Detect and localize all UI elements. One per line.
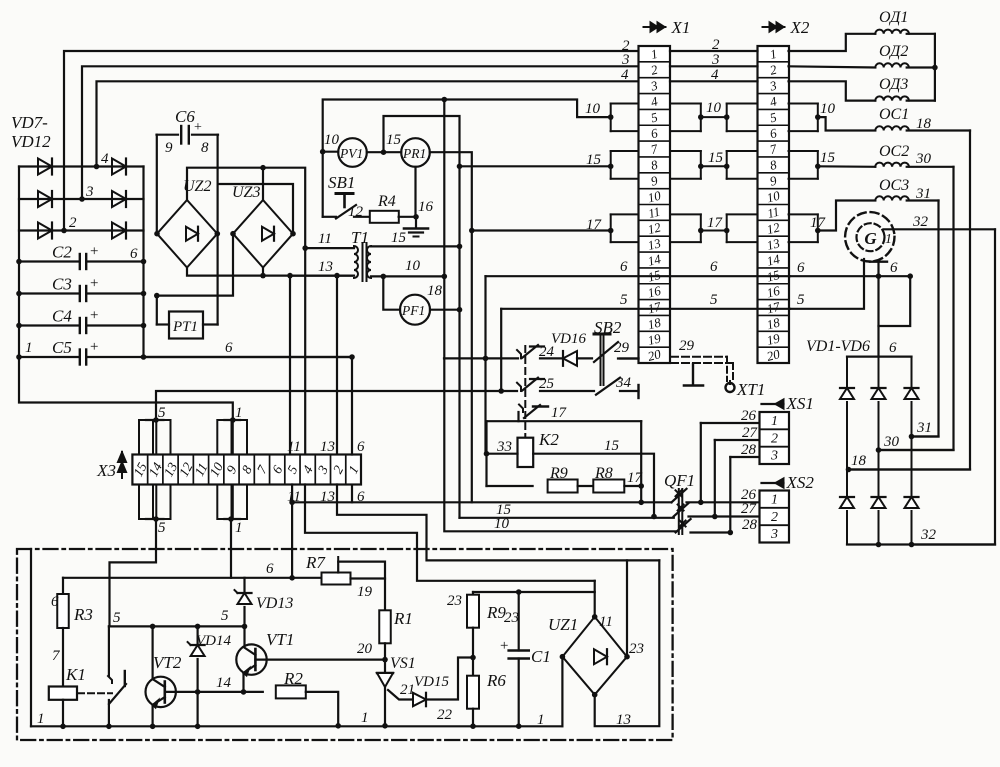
wire K2 coil left — [487, 453, 518, 455]
svg-text:K1: K1 — [65, 665, 86, 684]
svg-text:ОС1: ОС1 — [879, 106, 909, 123]
X3 aux rect below-4 — [233, 485, 247, 520]
svg-text:18: 18 — [916, 116, 932, 132]
svg-text:17: 17 — [707, 215, 724, 231]
node net-5 right end — [242, 624, 248, 630]
capacitor C3 — [19, 292, 78, 294]
svg-text:UZ1: UZ1 — [548, 615, 578, 634]
capacitor C5 — [19, 356, 78, 358]
wire OD common — [934, 34, 936, 101]
wire X3 rect1 bottom — [228, 516, 234, 522]
node UZ3 left vertex — [230, 231, 236, 237]
wire X1-X2 row2 net-3 — [670, 65, 758, 67]
svg-text:30: 30 — [915, 151, 932, 167]
svg-text:2: 2 — [771, 510, 778, 525]
X3 aux rect below-3 — [217, 485, 231, 520]
svg-text:+: + — [90, 339, 98, 355]
node VD14 base cross — [195, 689, 201, 695]
svg-text:6: 6 — [710, 259, 718, 275]
relay contact K2.2 (25) — [517, 383, 521, 391]
svg-text:+: + — [90, 244, 98, 260]
wire riser 28 to XS1 — [729, 457, 731, 533]
inductor OC1 — [875, 126, 909, 130]
node VT2 emitter bottom — [150, 724, 156, 730]
wire QF1 out 28 — [691, 531, 731, 533]
svg-text:28: 28 — [741, 442, 757, 458]
jumper dashed X1 pin20 to XT1 — [671, 356, 727, 358]
wire net-17 bus to QF1 — [292, 501, 671, 503]
relay contact K2.1 (24) — [517, 350, 521, 358]
svg-text:15: 15 — [586, 152, 602, 168]
svg-text:PF1: PF1 — [401, 303, 425, 318]
diode VD16 — [540, 357, 561, 359]
wire X1-X2 row1 net-2 — [670, 50, 758, 52]
svg-text:C5: C5 — [52, 338, 72, 357]
diode VD1 — [846, 357, 848, 388]
node R2 bottom — [335, 723, 341, 729]
transistor VT1 — [243, 626, 245, 647]
svg-text:R4: R4 — [377, 193, 396, 210]
svg-text:UZ3: UZ3 — [232, 184, 260, 201]
bracket X1-X2 pins 4-6 net-10 — [670, 102, 701, 104]
wire R8 to net-17 bus — [624, 485, 641, 487]
node R4 right — [413, 214, 419, 220]
wire net-15 bus to X1 — [460, 165, 611, 167]
wire top bus of R9 C1 UZ1 — [473, 591, 595, 593]
wire K2 box right — [640, 421, 642, 486]
node 2 — [61, 228, 67, 234]
node C1 top — [516, 589, 522, 595]
svg-text:C3: C3 — [52, 275, 72, 294]
bridge rectifier UZ2 — [157, 200, 217, 268]
wire X3 cell1 riser above net-6 — [351, 357, 353, 455]
wire bridge bottom rail — [847, 543, 995, 545]
svg-text:3: 3 — [85, 184, 94, 200]
svg-text:PT1: PT1 — [172, 319, 198, 335]
bracket X1-X2 pins 7-9 net-15 — [670, 150, 701, 152]
wire net-5 bus in box — [109, 625, 245, 627]
svg-text:G: G — [864, 229, 877, 248]
svg-text:12: 12 — [348, 204, 364, 220]
svg-text:C6: C6 — [175, 107, 195, 126]
svg-text:5: 5 — [221, 608, 229, 624]
diode VD4 — [846, 470, 848, 498]
wire G1 bottom brush net-6 — [870, 261, 887, 263]
svg-text:10: 10 — [405, 258, 421, 274]
svg-text:5: 5 — [620, 292, 628, 308]
node R9-R6 mid — [470, 655, 476, 661]
inductor OC2 — [875, 163, 909, 167]
svg-text:26: 26 — [741, 408, 757, 424]
X3 aux rect above-4 — [233, 420, 247, 455]
wire net-4 top bus — [97, 81, 639, 166]
svg-text:23: 23 — [629, 641, 644, 657]
svg-text:13: 13 — [320, 489, 335, 505]
node UZ1 bottom — [592, 692, 598, 698]
svg-text:27: 27 — [742, 425, 759, 441]
X3 aux rect above-3 — [217, 420, 231, 455]
svg-text:VD1-VD6: VD1-VD6 — [806, 338, 870, 355]
bracket X2-right pins 7-9 net-15 — [789, 150, 818, 152]
diode VD11 — [112, 191, 126, 207]
wire OD3 feed — [789, 81, 876, 100]
svg-text:30: 30 — [883, 434, 900, 450]
svg-text:X3: X3 — [96, 461, 116, 480]
mech link dashed SB2-K2 contacts — [524, 346, 526, 437]
R7 bypass — [338, 562, 385, 611]
capacitor C2 — [19, 260, 78, 262]
svg-text:+: + — [194, 120, 202, 135]
svg-text:VD14: VD14 — [196, 633, 231, 649]
wire net-29 into X1 pin 20 — [620, 357, 639, 359]
wire net-10 vertical to QF1 bus — [444, 276, 676, 531]
diode VD3 — [911, 357, 913, 388]
svg-text:QF1: QF1 — [664, 471, 695, 490]
X3 aux rect below-1 — [139, 485, 153, 520]
wire VD7-VD12 row 3 — [19, 198, 144, 200]
svg-text:17: 17 — [551, 405, 568, 421]
wire VT2 base line net-14 — [165, 691, 243, 693]
svg-text:R8: R8 — [594, 465, 613, 482]
wire UZ1 right up to loop — [626, 560, 628, 656]
node R6 bottom — [470, 723, 476, 729]
node PV1-PR1 junction net-15 — [381, 149, 387, 155]
svg-text:9: 9 — [165, 140, 173, 156]
wire T1 primary top net-11 — [305, 247, 354, 249]
svg-text:11: 11 — [318, 231, 332, 247]
resistor R2 — [244, 691, 263, 693]
diode VD13 (zener) — [243, 578, 245, 593]
svg-text:6: 6 — [225, 340, 233, 356]
wire UZ1 left down — [561, 657, 563, 727]
relay contact K2.3 (17) — [519, 405, 523, 413]
wire UZ1 loop right side — [595, 560, 660, 726]
wire K2 coil right net-15 — [533, 454, 654, 517]
svg-text:ОС3: ОС3 — [879, 177, 909, 194]
svg-text:23: 23 — [447, 593, 462, 609]
diode VD14 (zener) — [197, 626, 199, 645]
node XS risers — [698, 500, 704, 506]
diode VD5 — [878, 450, 880, 497]
wire net-18 row — [849, 468, 971, 470]
wire contact-24 line — [444, 357, 518, 359]
svg-text:15: 15 — [386, 132, 402, 148]
node bridge bottom joins — [876, 542, 882, 548]
svg-text:XT1: XT1 — [736, 380, 765, 399]
node UZ3 bottom join — [260, 273, 266, 279]
wire X3 rect5 top — [153, 417, 159, 423]
wire bottom rail net-1 — [31, 725, 562, 727]
svg-text:+: + — [500, 638, 508, 654]
svg-text:R6: R6 — [486, 671, 506, 690]
wire net-18 down — [849, 131, 971, 470]
connector X1 body — [639, 46, 671, 363]
wire net-5 row through X1 X2 — [501, 308, 790, 310]
mech link dashed K1 — [78, 692, 112, 694]
thyristor VS1 — [384, 660, 386, 673]
wire T1 secondary top net-15 — [371, 245, 460, 247]
svg-text:1: 1 — [361, 710, 369, 726]
svg-text:4: 4 — [101, 151, 109, 167]
generator G1 outer — [845, 212, 894, 261]
wire PF1 right — [430, 309, 460, 311]
svg-text:1: 1 — [771, 493, 778, 508]
bracket X2-right pins 11-13 net-17 — [789, 213, 818, 215]
svg-text:1: 1 — [771, 414, 778, 429]
ammeter PR1 — [401, 138, 430, 167]
bridge rectifier UZ1 — [562, 617, 627, 695]
svg-text:R7: R7 — [305, 553, 326, 572]
node cell5 net17bus cross — [289, 500, 295, 506]
resistor R8 — [578, 485, 594, 487]
svg-text:25: 25 — [539, 376, 555, 392]
node net-6 contact24 tap — [483, 356, 489, 362]
node OD1-OD2 join — [932, 65, 938, 71]
generator G1 inner — [857, 223, 885, 251]
svg-text:5: 5 — [158, 405, 166, 421]
svg-text:6: 6 — [266, 561, 274, 577]
wire X3 cell4 drop to UZ1 loop — [305, 485, 595, 581]
inductor OC3 — [875, 196, 909, 200]
wire to OC2 — [818, 165, 876, 168]
wire net-6 to bridge top — [879, 276, 911, 326]
terminal strip X3 body — [132, 455, 361, 485]
wire net-3 top bus — [82, 66, 639, 199]
wire right rail of diode block — [142, 167, 144, 358]
resistor R9 (K2) — [487, 485, 533, 487]
resistor R6 — [467, 676, 479, 709]
svg-text:XS1: XS1 — [786, 394, 814, 413]
relay coil K1 — [62, 628, 64, 687]
wire VD7-VD12 row 4 — [19, 165, 144, 167]
wire net-31 row — [912, 435, 939, 437]
svg-text:15: 15 — [496, 502, 512, 518]
resistor R3 — [62, 578, 64, 595]
wire net-10 top link — [323, 100, 611, 152]
wire X3 cell2 riser — [336, 276, 338, 455]
node net-17 joins — [638, 500, 644, 506]
wire bridge top rail — [847, 356, 912, 358]
node R7 junction net-6 — [289, 575, 295, 581]
connector X1 arrow — [644, 26, 666, 28]
wire PV1-PR1 — [367, 151, 401, 153]
svg-text:C1: C1 — [531, 647, 551, 666]
svg-text:+: + — [90, 276, 98, 292]
node UZ3 top join — [260, 165, 266, 171]
wire QF1 out 27 — [689, 515, 760, 517]
wire X3 cell5 riser — [289, 276, 291, 455]
node UZ1 left — [560, 654, 566, 660]
svg-text:VD16: VD16 — [551, 331, 586, 347]
wire VT1 emitter to net-14 — [242, 673, 244, 692]
terminal XT1 — [726, 383, 735, 392]
wire VD7-VD12 row 2 — [19, 229, 144, 231]
node VD14 tap — [195, 624, 201, 630]
svg-text:VT1: VT1 — [266, 630, 294, 649]
wire PF1 left — [383, 276, 400, 309]
svg-text:16: 16 — [418, 199, 434, 215]
voltmeter PV1 — [338, 138, 367, 167]
pushbutton SB2 lower contact — [596, 378, 620, 395]
node PV1 left — [320, 149, 326, 155]
pushbutton SB2 plunger — [594, 333, 610, 336]
svg-text:6: 6 — [130, 246, 138, 262]
wire OD1 feed — [789, 34, 876, 51]
node UZ2 right vertex — [215, 231, 221, 237]
svg-text:2: 2 — [712, 37, 720, 53]
node 20 — [384, 643, 386, 659]
wire C6 right leg down to PT1 — [217, 135, 219, 325]
wire to OC1 — [818, 117, 876, 130]
svg-text:5: 5 — [797, 292, 805, 308]
svg-text:VD12: VD12 — [11, 132, 51, 151]
svg-text:6: 6 — [51, 594, 59, 610]
svg-text:PV1: PV1 — [339, 146, 363, 161]
wire T1 primary bottom net-13 — [290, 275, 354, 277]
connector X2 arrow — [763, 26, 785, 28]
svg-text:6: 6 — [357, 439, 365, 455]
wire OD2 feed — [789, 66, 876, 67]
wire UZ2 right to UZ3 right jumper — [218, 184, 293, 234]
relay contact K1.1 — [108, 626, 110, 676]
svg-text:5: 5 — [113, 610, 121, 626]
node net-25 net-5 join — [498, 388, 504, 394]
svg-text:11: 11 — [287, 439, 301, 455]
diode VD6 — [911, 437, 913, 498]
inductor OD1 — [875, 30, 909, 34]
regulator unit dash-dot border — [17, 549, 673, 740]
node net-17 bus tap — [469, 228, 475, 234]
svg-text:VD7-: VD7- — [11, 113, 48, 132]
wire net-6 vertical from X1 row — [484, 276, 486, 454]
transformer T1 secondary coil — [367, 246, 371, 278]
X3 aux rect above-2 — [156, 420, 170, 455]
svg-text:ОД2: ОД2 — [879, 43, 908, 60]
wire riser 26 to XS1 — [700, 423, 702, 502]
node K1 bottom — [60, 724, 66, 730]
wire T1 secondary bottom net-10 — [371, 275, 444, 277]
svg-text:6: 6 — [797, 260, 805, 276]
svg-text:6: 6 — [890, 260, 898, 276]
svg-text:R9: R9 — [549, 465, 568, 482]
inductor OD3 — [875, 96, 909, 100]
wire net-34 — [620, 390, 639, 392]
svg-text:ОС2: ОС2 — [879, 143, 909, 160]
wire net-2 top bus — [64, 51, 639, 231]
svg-text:18: 18 — [851, 453, 867, 469]
transformer T1 primary coil — [354, 246, 358, 278]
svg-text:15: 15 — [604, 438, 620, 454]
svg-text:19: 19 — [357, 584, 373, 600]
svg-text:SB1: SB1 — [328, 173, 355, 192]
svg-text:4: 4 — [711, 67, 719, 83]
wire net-30 row — [879, 449, 954, 451]
svg-text:R2: R2 — [283, 669, 303, 688]
diode VD12 — [112, 223, 126, 239]
X3 aux rect above-1 — [139, 420, 153, 455]
svg-text:5: 5 — [710, 292, 718, 308]
bracket X1-X2 pins 11-13 net-17 — [670, 213, 701, 215]
svg-text:3: 3 — [770, 527, 778, 542]
svg-text:27: 27 — [741, 501, 758, 517]
svg-text:31: 31 — [916, 420, 932, 436]
svg-text:3: 3 — [711, 52, 720, 68]
svg-text:31: 31 — [915, 186, 931, 202]
svg-text:6: 6 — [620, 259, 628, 275]
node UZ1 right — [624, 654, 630, 660]
svg-text:29: 29 — [679, 338, 695, 354]
capacitor C4 — [19, 324, 78, 326]
wire to OC3 — [818, 201, 876, 231]
svg-text:PR1: PR1 — [402, 146, 426, 161]
connector XS2 — [760, 491, 790, 543]
resistor R7 — [322, 573, 351, 585]
svg-text:17: 17 — [627, 470, 644, 486]
wire net-17 bus to X1 — [472, 229, 611, 231]
svg-text:XS2: XS2 — [786, 473, 815, 492]
svg-text:10: 10 — [585, 101, 601, 117]
breaker QF1 tie bar — [678, 489, 680, 534]
capacitor C6 — [157, 134, 179, 136]
wire X3 rect1 top — [230, 417, 236, 423]
wire R7 right — [351, 577, 386, 579]
svg-text:2: 2 — [771, 431, 778, 446]
wire VT1 base to node 20 — [255, 658, 385, 660]
svg-text:X2: X2 — [790, 18, 810, 37]
svg-text:ОД1: ОД1 — [879, 9, 908, 26]
node UZ2 left vertex — [154, 231, 160, 237]
node UZ3 right vertex — [290, 231, 296, 237]
svg-text:22: 22 — [437, 707, 453, 723]
svg-text:1: 1 — [235, 405, 243, 421]
net-34 end bar — [637, 385, 639, 398]
diode VD2 — [878, 357, 880, 388]
wire net-32 down to bridge — [912, 229, 996, 544]
diode VD10 — [112, 159, 126, 175]
wire box left rail — [30, 549, 32, 726]
svg-text:VD13: VD13 — [256, 595, 293, 612]
wire net-13 UZ bottoms bus — [187, 268, 352, 276]
wire net-31 down — [912, 201, 939, 437]
diode VD7 — [38, 159, 52, 175]
svg-text:15: 15 — [391, 230, 407, 246]
svg-text:C2: C2 — [52, 243, 72, 262]
svg-text:3: 3 — [770, 449, 778, 464]
node 4 — [94, 164, 100, 170]
node VT2 collector tap — [150, 624, 156, 630]
wire net-11 UZ tops bus — [187, 168, 305, 455]
svg-text:10: 10 — [706, 100, 722, 116]
resistor R4 — [370, 211, 399, 223]
node K1 contact bottom — [106, 724, 112, 730]
wire K2 box left — [485, 421, 487, 486]
wire G1 second brush net-5 — [790, 259, 864, 309]
thyristor VS1 gate + diode VD15 — [388, 690, 411, 700]
bridge rectifier UZ3 — [233, 200, 293, 268]
bracket X1-left pins 4-6 net-10 — [611, 102, 639, 104]
svg-text:2: 2 — [69, 215, 77, 231]
svg-text:VS1: VS1 — [390, 655, 416, 672]
wire net-6 from X2 to G1 — [790, 275, 910, 277]
svg-text:1: 1 — [235, 520, 243, 536]
wire riser 27 to XS1 — [714, 440, 716, 517]
node net-33 tap — [484, 451, 490, 457]
connector XS1 — [760, 412, 790, 464]
svg-text:1: 1 — [25, 340, 33, 356]
svg-text:8: 8 — [201, 140, 209, 156]
wire PR1 right net-17 — [430, 152, 472, 502]
svg-text:R3: R3 — [73, 605, 93, 624]
